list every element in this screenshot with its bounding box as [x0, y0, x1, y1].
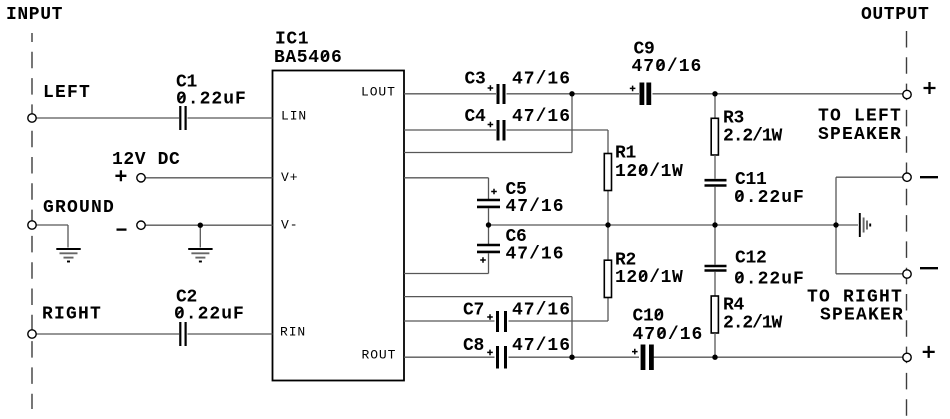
svg-text:2.2/1W: 2.2/1W — [723, 314, 783, 334]
svg-text:470/16: 470/16 — [632, 57, 703, 77]
svg-text:TO RIGHT: TO RIGHT — [807, 288, 903, 308]
svg-text:47/16: 47/16 — [512, 107, 571, 127]
svg-text:LIN: LIN — [281, 109, 307, 124]
svg-text:ROUT: ROUT — [362, 348, 397, 363]
svg-text:47/16: 47/16 — [506, 245, 565, 265]
svg-text:IC1: IC1 — [275, 30, 309, 50]
svg-text:SPEAKER: SPEAKER — [820, 306, 904, 326]
svg-text:0.22uF: 0.22uF — [734, 270, 805, 290]
svg-text:0.22uF: 0.22uF — [176, 90, 247, 110]
svg-text:RIGHT: RIGHT — [42, 305, 102, 325]
svg-text:C4: C4 — [465, 107, 487, 127]
svg-text:V-: V- — [281, 218, 298, 233]
svg-text:0.22uF: 0.22uF — [174, 305, 245, 325]
svg-text:C7: C7 — [463, 301, 484, 321]
svg-text:C11: C11 — [735, 170, 767, 190]
svg-text:0.22uF: 0.22uF — [734, 188, 805, 208]
svg-text:R3: R3 — [723, 109, 744, 129]
svg-text:C8: C8 — [463, 336, 484, 356]
svg-text:LOUT: LOUT — [361, 85, 396, 100]
svg-text:RIN: RIN — [280, 325, 306, 340]
svg-text:R1: R1 — [615, 144, 637, 164]
svg-text:47/16: 47/16 — [506, 197, 565, 217]
svg-text:C3: C3 — [465, 70, 486, 90]
svg-text:C12: C12 — [735, 249, 767, 269]
svg-text:47/16: 47/16 — [512, 70, 571, 90]
svg-text:SPEAKER: SPEAKER — [818, 125, 902, 145]
svg-text:V+: V+ — [281, 170, 298, 185]
svg-text:BA5406: BA5406 — [274, 48, 342, 68]
svg-text:LEFT: LEFT — [43, 83, 91, 103]
svg-text:TO LEFT: TO LEFT — [818, 107, 902, 127]
svg-text:GROUND: GROUND — [43, 198, 115, 218]
svg-text:OUTPUT: OUTPUT — [861, 5, 929, 25]
svg-text:INPUT: INPUT — [6, 5, 63, 25]
svg-text:R4: R4 — [723, 296, 745, 316]
svg-text:47/16: 47/16 — [512, 301, 571, 321]
svg-text:470/16: 470/16 — [633, 325, 704, 345]
svg-text:47/16: 47/16 — [512, 336, 571, 356]
svg-text:12V DC: 12V DC — [112, 150, 180, 170]
svg-text:120/1W: 120/1W — [615, 268, 683, 288]
svg-text:C10: C10 — [633, 307, 665, 327]
svg-text:2.2/1W: 2.2/1W — [723, 127, 783, 147]
svg-text:120/1W: 120/1W — [615, 162, 683, 182]
